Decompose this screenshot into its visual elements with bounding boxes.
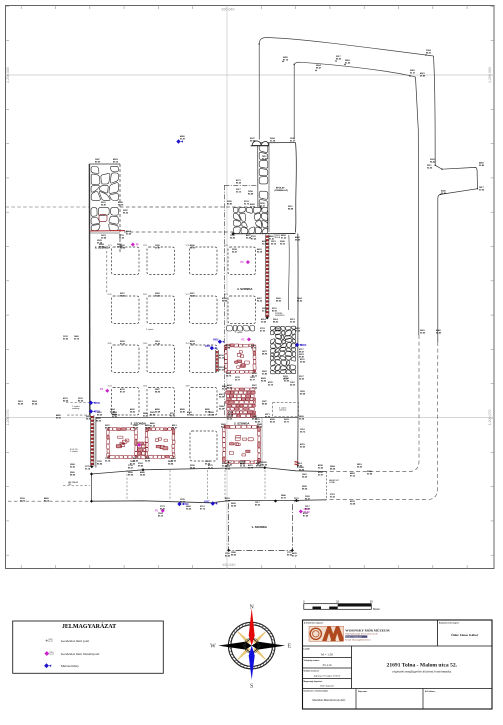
svg-text:4806: 4806 (301, 344, 307, 347)
svg-text:94.18: 94.18 (257, 250, 263, 253)
svg-text:86.16: 86.16 (158, 515, 164, 517)
svg-text:Rajzszám:: Rajzszám: (358, 691, 368, 693)
svg-text:93.00: 93.00 (305, 508, 311, 510)
svg-text:96.90: 96.90 (155, 343, 161, 345)
svg-text:WOSINSKY MÓR MÚZEUM: WOSINSKY MÓR MÚZEUM (345, 628, 390, 633)
svg-text:88.09: 88.09 (145, 427, 151, 429)
svg-text:96.16: 96.16 (271, 243, 277, 245)
svg-text:1933: 1933 (108, 386, 112, 388)
svg-text:Kelt dátum:: Kelt dátum: (425, 690, 436, 693)
svg-text:2664: 2664 (143, 386, 147, 388)
svg-text:1. számú: 1. számú (235, 332, 242, 334)
svg-text:90.00: 90.00 (420, 332, 426, 334)
svg-text:89.29: 89.29 (97, 414, 103, 416)
svg-text:89.74: 89.74 (190, 342, 196, 345)
svg-text:95.68: 95.68 (205, 411, 211, 413)
svg-text:88.45: 88.45 (133, 459, 139, 462)
svg-text:90.13: 90.13 (236, 191, 242, 193)
svg-text:94.92: 94.92 (86, 417, 92, 420)
svg-text:3931: 3931 (186, 343, 190, 345)
svg-text:87.32: 87.32 (350, 475, 356, 477)
svg-text:2542: 2542 (108, 294, 112, 296)
svg-text:93.54: 93.54 (261, 320, 267, 323)
svg-text:1,200,080: 1,200,080 (6, 67, 10, 83)
svg-text:S: S (250, 684, 253, 690)
svg-text:93.17: 93.17 (283, 378, 289, 380)
svg-text:1,200,080: 1,200,080 (488, 67, 492, 83)
svg-text:Térképlap száma:: Térképlap száma: (304, 660, 320, 662)
svg-text:95.72: 95.72 (280, 243, 286, 245)
svg-text:89.86: 89.86 (138, 465, 144, 467)
svg-text:94.45: 94.45 (140, 473, 146, 476)
svg-text:1,200,070: 1,200,070 (6, 410, 10, 426)
svg-text:90.00: 90.00 (250, 206, 256, 208)
svg-text:89.90: 89.90 (95, 161, 101, 163)
svg-text:3719: 3719 (186, 245, 190, 247)
svg-text:20: 20 (370, 599, 374, 603)
svg-text:88.48: 88.48 (288, 207, 294, 210)
svg-text:91.28: 91.28 (295, 330, 301, 332)
svg-text:86.33: 86.33 (270, 421, 276, 423)
svg-text:85.70: 85.70 (190, 247, 196, 249)
svg-text:10: 10 (336, 599, 340, 603)
svg-text:91.71: 91.71 (208, 467, 214, 469)
svg-text:92.60: 92.60 (299, 378, 305, 380)
svg-text:91.80: 91.80 (110, 411, 116, 413)
svg-text:93.77: 93.77 (235, 379, 241, 381)
svg-text:94.29: 94.29 (302, 475, 308, 478)
svg-text:A felmérést végezte:: A felmérést végezte: (304, 622, 324, 625)
svg-text:94.87: 94.87 (101, 203, 107, 206)
svg-text:1671: 1671 (108, 245, 112, 247)
svg-text:89.43: 89.43 (120, 294, 126, 297)
svg-text:91.38: 91.38 (270, 140, 276, 142)
svg-text:95.50: 95.50 (297, 300, 303, 302)
svg-text:85.55: 85.55 (18, 403, 24, 405)
svg-text:ÉPÜLET: ÉPÜLET (276, 187, 285, 190)
svg-text:94.58: 94.58 (133, 426, 139, 429)
svg-text:89.83: 89.83 (227, 203, 233, 205)
svg-text:Balti alapszint: Balti alapszint (320, 685, 334, 688)
svg-text:94.39: 94.39 (290, 383, 296, 386)
svg-text:4706: 4706 (95, 402, 101, 405)
svg-text:93.80: 93.80 (262, 373, 268, 375)
svg-text:88.45: 88.45 (222, 299, 228, 302)
svg-text:4. SZONDA: 4. SZONDA (237, 287, 253, 291)
svg-text:94.52: 94.52 (130, 410, 136, 413)
svg-text:87.33: 87.33 (120, 343, 126, 345)
svg-text:1075: 1075 (224, 294, 228, 296)
svg-text:93.92: 93.92 (63, 338, 69, 340)
svg-text:92.38: 92.38 (219, 408, 225, 410)
svg-text:91.46: 91.46 (345, 61, 351, 64)
svg-text:89.57: 89.57 (316, 67, 322, 69)
svg-text:E-mail: titkarsag@wmmm.hu: E-mail: titkarsag@wmmm.hu (345, 639, 371, 642)
svg-text:89.38: 89.38 (128, 474, 134, 476)
svg-text:93.07: 93.07 (180, 138, 186, 140)
svg-text:92.27: 92.27 (262, 158, 268, 160)
svg-text:91.27: 91.27 (290, 140, 296, 142)
svg-text:1617: 1617 (186, 294, 190, 296)
svg-text:91.38: 91.38 (275, 330, 281, 332)
svg-text:95.99: 95.99 (295, 239, 301, 241)
svg-text:85.44: 85.44 (97, 462, 103, 465)
svg-text:93.19: 93.19 (268, 384, 274, 386)
svg-text:92.06: 92.06 (427, 167, 433, 169)
svg-text:90.73: 90.73 (262, 243, 268, 245)
svg-text:85.25: 85.25 (257, 300, 263, 302)
svg-text:92.71: 92.71 (284, 421, 290, 423)
svg-text:89.24: 89.24 (225, 467, 231, 470)
svg-text:91.74: 91.74 (170, 414, 176, 417)
svg-text:89.04: 89.04 (225, 346, 231, 349)
svg-text:88.54: 88.54 (330, 467, 336, 470)
svg-text:88.27: 88.27 (128, 467, 134, 469)
svg-text:92.50: 92.50 (300, 446, 306, 448)
svg-text:88.55: 88.55 (231, 554, 237, 556)
svg-text:93.97: 93.97 (318, 474, 324, 476)
svg-text:95.40: 95.40 (436, 331, 442, 334)
svg-text:86.60: 86.60 (336, 58, 342, 60)
svg-text:95.20: 95.20 (119, 237, 125, 239)
svg-text:630,640: 630,640 (222, 8, 235, 12)
svg-text:88.96: 88.96 (262, 353, 268, 355)
svg-text:szelvény: szelvény (72, 408, 79, 410)
svg-text:85.04: 85.04 (250, 139, 256, 142)
svg-text:91.87: 91.87 (117, 246, 123, 248)
svg-text:2. számú: 2. számú (146, 329, 153, 331)
svg-text:Meridián Mérnöki Iroda Kft.: Meridián Mérnöki Iroda Kft. (312, 698, 346, 702)
svg-text:2. számú: 2. számú (70, 451, 78, 453)
svg-text:86.41: 86.41 (160, 507, 166, 510)
svg-text:1. SZONDA: 1. SZONDA (252, 525, 268, 529)
svg-text:93.14: 93.14 (85, 467, 91, 470)
svg-text:87.76: 87.76 (200, 508, 206, 510)
svg-text:97.17: 97.17 (49, 654, 54, 656)
svg-text:87.07: 87.07 (120, 391, 126, 393)
svg-text:96.62: 96.62 (300, 361, 306, 363)
svg-text:1,200,070: 1,200,070 (488, 410, 492, 426)
svg-text:94.84: 94.84 (168, 462, 174, 465)
svg-text:94.78: 94.78 (248, 466, 254, 469)
svg-text:88.83: 88.83 (262, 403, 268, 405)
svg-text:94.07: 94.07 (257, 463, 263, 466)
svg-text:JELMAGYARÁZAT: JELMAGYARÁZAT (62, 622, 116, 630)
svg-text:2. SZONDA: 2. SZONDA (234, 422, 250, 426)
svg-text:88.52: 88.52 (276, 300, 282, 302)
svg-text:88.01: 88.01 (426, 52, 432, 54)
svg-text:86.93: 86.93 (150, 414, 156, 416)
svg-text:25-114: 25-114 (323, 663, 332, 667)
svg-text:87.49: 87.49 (99, 245, 105, 248)
svg-text:93.98: 93.98 (367, 473, 373, 475)
svg-text:88.73: 88.73 (257, 426, 263, 428)
svg-text:96.04: 96.04 (299, 417, 305, 420)
svg-text:86.57: 86.57 (305, 498, 311, 500)
svg-text:92.06: 92.06 (190, 295, 196, 297)
svg-text:Metszetirány: Metszetirány (61, 664, 80, 668)
svg-text:86.91: 86.91 (56, 417, 62, 419)
svg-text:93.19: 93.19 (118, 204, 124, 206)
svg-text:91.22: 91.22 (281, 237, 287, 239)
svg-text:87.15: 87.15 (283, 59, 289, 61)
svg-text:Telefon: 74/316-222: Telefon: 74/316-222 (346, 636, 362, 638)
svg-text:95.68: 95.68 (155, 411, 161, 413)
svg-text:3499: 3499 (143, 294, 147, 296)
svg-text:87.03: 87.03 (260, 330, 266, 332)
svg-text:630,640: 630,640 (223, 563, 236, 567)
svg-text:93.70: 93.70 (74, 338, 80, 340)
svg-text:87.60: 87.60 (171, 460, 177, 462)
svg-text:87.77: 87.77 (250, 379, 256, 381)
svg-text:90.26: 90.26 (290, 321, 296, 323)
svg-text:Geodéziai mért illesztőpont: Geodéziai mért illesztőpont (61, 652, 100, 656)
svg-text:2636: 2636 (143, 343, 147, 345)
svg-text:87.71: 87.71 (221, 426, 227, 428)
svg-text:92.41: 92.41 (70, 465, 76, 468)
svg-text:92.68: 92.68 (350, 503, 356, 505)
svg-text:88.07: 88.07 (299, 351, 305, 353)
svg-text:89.25: 89.25 (255, 504, 261, 506)
svg-text:85.45: 85.45 (227, 386, 233, 389)
svg-text:97.17: 97.17 (48, 641, 53, 643)
svg-text:94.39: 94.39 (219, 395, 225, 398)
svg-text:88.95: 88.95 (155, 391, 161, 393)
svg-text:86.04: 86.04 (78, 399, 84, 402)
svg-text:85.14: 85.14 (44, 499, 50, 502)
svg-text:85.24: 85.24 (32, 402, 38, 405)
svg-text:VONAL: VONAL (329, 481, 335, 484)
svg-text:93.01: 93.01 (330, 496, 336, 498)
svg-text:91.15: 91.15 (219, 357, 225, 359)
svg-text:96.03: 96.03 (190, 467, 196, 469)
svg-text:Vetületi rendszer:: Vetületi rendszer: (304, 669, 320, 672)
svg-text:21691 Tolna - Malom utca 52.: 21691 Tolna - Malom utca 52. (387, 662, 458, 668)
svg-text:458C: 458C (204, 501, 210, 504)
svg-text:85.87: 85.87 (299, 356, 305, 358)
svg-text:94.87: 94.87 (172, 426, 178, 429)
svg-text:87.45: 87.45 (251, 237, 257, 240)
svg-text:86.99: 86.99 (265, 416, 271, 418)
svg-text:93.66: 93.66 (252, 387, 258, 389)
svg-text:90.54: 90.54 (101, 236, 107, 239)
svg-text:88.83: 88.83 (105, 427, 111, 429)
svg-text:88.96: 88.96 (70, 474, 76, 476)
svg-text:E: E (288, 644, 292, 650)
svg-text:Geodéziai mért pont: Geodéziai mért pont (61, 639, 90, 643)
svg-text:4395: 4395 (224, 245, 228, 247)
svg-text:szelvény: szelvény (279, 410, 286, 412)
svg-text:94.76: 94.76 (226, 374, 232, 377)
svg-text:88.39: 88.39 (96, 420, 102, 422)
svg-text:87.49: 87.49 (303, 514, 309, 517)
svg-text:4805: 4805 (213, 339, 219, 342)
svg-text:96.20: 96.20 (357, 466, 363, 468)
svg-text:86.57: 86.57 (222, 388, 228, 390)
svg-text:1869: 1869 (186, 386, 190, 388)
svg-text:TEL.: TEL. (68, 484, 72, 486)
svg-text:93.42: 93.42 (143, 414, 149, 417)
svg-text:92.52: 92.52 (155, 295, 161, 297)
svg-text:TÉGLA: TÉGLA (274, 236, 281, 239)
svg-text:87.15: 87.15 (209, 414, 215, 416)
svg-text:94.42: 94.42 (430, 160, 436, 163)
svg-text:90.06: 90.06 (479, 189, 485, 191)
svg-text:(FENNÁLLÓ): (FENNÁLLÓ) (275, 189, 289, 192)
svg-text:89.15: 89.15 (113, 161, 119, 163)
svg-text:96.29: 96.29 (186, 508, 192, 510)
svg-text:96.98: 96.98 (246, 237, 252, 239)
svg-text:86.00: 86.00 (123, 212, 129, 214)
svg-text:88.69: 88.69 (255, 421, 261, 423)
svg-text:2805: 2805 (205, 345, 211, 348)
svg-text:Ódor János Gábor: Ódor János Gábor (451, 632, 479, 637)
svg-text:94.92: 94.92 (230, 236, 236, 239)
svg-text:92.69: 92.69 (262, 464, 268, 466)
svg-text:94.72: 94.72 (20, 499, 26, 502)
svg-text:régészeti megfigyelés közbeni: régészeti megfigyelés közbeni bontómunka (392, 669, 451, 673)
svg-text:92.49: 92.49 (479, 164, 485, 167)
svg-text:87.37: 87.37 (292, 555, 298, 557)
svg-text:91.37: 91.37 (410, 72, 416, 74)
svg-text:7100 Szekszárd, Szent István t: 7100 Szekszárd, Szent István tér 26. (345, 633, 378, 636)
svg-text:85.48: 85.48 (248, 192, 254, 195)
svg-text:95.72: 95.72 (300, 431, 306, 433)
svg-text:M = 1:50: M = 1:50 (321, 652, 333, 656)
svg-text:93.40: 93.40 (126, 232, 132, 235)
svg-text:90.30: 90.30 (187, 414, 193, 416)
svg-text:95.05: 95.05 (299, 469, 305, 471)
svg-text:93.62: 93.62 (318, 467, 324, 469)
svg-text:93.14: 93.14 (105, 459, 111, 462)
svg-text:2299: 2299 (143, 245, 147, 247)
svg-text:88.04: 88.04 (302, 487, 308, 490)
svg-text:90.17: 90.17 (262, 310, 268, 312)
svg-text:93.58: 93.58 (294, 500, 300, 502)
svg-text:89.79: 89.79 (251, 347, 257, 349)
svg-text:4845: 4845 (108, 343, 112, 345)
svg-text:95.42: 95.42 (112, 415, 118, 418)
svg-text:94.21: 94.21 (232, 250, 238, 253)
svg-text:91.04: 91.04 (150, 424, 156, 427)
svg-text:94.90: 94.90 (231, 504, 237, 507)
svg-text:94.25: 94.25 (227, 417, 233, 420)
svg-text:90.71: 90.71 (281, 497, 287, 499)
svg-text:89.08: 89.08 (300, 393, 306, 395)
svg-text:89.91: 89.91 (272, 310, 278, 312)
svg-text:91.14: 91.14 (240, 464, 246, 467)
svg-text:86.05: 86.05 (236, 182, 242, 184)
svg-text:Geodézia és térinformatika:: Geodézia és térinformatika: (304, 690, 329, 693)
svg-text:94.99: 94.99 (145, 459, 151, 462)
svg-text:Ásatásvezető régész:: Ásatásvezető régész: (439, 622, 460, 625)
svg-text:Lépték:: Lépték: (304, 647, 311, 650)
svg-text:87.00: 87.00 (219, 369, 225, 371)
svg-text:91.97: 91.97 (155, 247, 161, 249)
svg-text:95.82: 95.82 (441, 193, 447, 195)
svg-text:96.89: 96.89 (420, 75, 426, 77)
svg-text:85.96: 85.96 (261, 380, 267, 382)
svg-text:N: N (250, 605, 255, 611)
svg-text:Egységes Országos Vetületi: Egységes Országos Vetületi (314, 674, 341, 677)
svg-text:Magassági alapszint:: Magassági alapszint: (304, 680, 323, 683)
svg-text:96.85: 96.85 (225, 500, 231, 502)
svg-text:W: W (210, 644, 216, 650)
svg-text:93.35: 93.35 (180, 501, 186, 503)
svg-text:88.00: 88.00 (273, 321, 279, 323)
svg-text:89.56: 89.56 (225, 555, 231, 557)
svg-text:86.64: 86.64 (63, 399, 69, 402)
svg-text:94.81: 94.81 (180, 410, 186, 413)
svg-text:Méter: Méter (373, 607, 380, 611)
svg-text:HOMOKKŐ: HOMOKKŐ (275, 314, 285, 317)
